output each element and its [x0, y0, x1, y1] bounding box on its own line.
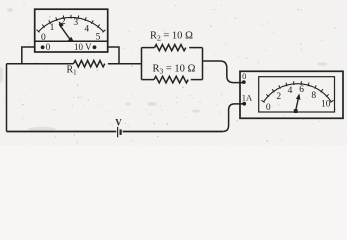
- voltmeter needle pivot: [68, 37, 73, 42]
- svg-text:1A: 1A: [242, 93, 253, 103]
- svg-text:0: 0: [46, 42, 51, 52]
- ammeter inner box: [259, 77, 335, 112]
- wire: bottom wire to ammeter bottom terminal: [223, 104, 244, 132]
- wire: top main wire right of R1: [108, 63, 142, 65]
- parallel box left edge: [141, 48, 143, 80]
- wire: bottom wire left of battery: [7, 131, 117, 133]
- wire: bottom wire right of battery: [123, 131, 223, 133]
- wire: parallel box to ammeter top terminal: [203, 61, 244, 83]
- voltmeter terminal right: [93, 45, 97, 49]
- ammeter scale numbers: [266, 85, 331, 113]
- ammeter needle: [296, 96, 299, 111]
- svg-text:8: 8: [311, 91, 316, 101]
- resistor R1: [74, 61, 105, 67]
- voltmeter needle arrowhead: [59, 21, 64, 27]
- wire: bottom branch right: [191, 79, 203, 81]
- wire: top branch right: [189, 47, 202, 49]
- wire: left outer wire: [6, 64, 8, 132]
- svg-text:2: 2: [61, 17, 66, 27]
- ammeter terminal 1A dot: [242, 102, 246, 106]
- svg-text:V: V: [115, 118, 122, 128]
- scan speckles: [4, 4, 336, 143]
- svg-text:1: 1: [50, 23, 55, 33]
- ammeter terminal 0 dot: [242, 80, 246, 84]
- wire: voltmeter right lead: [108, 47, 119, 64]
- resistor R2: [155, 45, 186, 51]
- svg-text:10 V: 10 V: [74, 42, 92, 52]
- wire: top branch left: [142, 47, 155, 49]
- wire: top main wire left of R1: [7, 63, 74, 65]
- ammeter scale arc: [264, 84, 332, 102]
- battery short plate: [119, 129, 121, 135]
- wire: bottom branch left: [142, 79, 155, 81]
- ammeter needle arrowhead: [296, 94, 301, 100]
- ammeter A1 outer box: [240, 71, 343, 118]
- voltmeter terminal left: [41, 45, 45, 49]
- svg-text:10: 10: [321, 100, 331, 110]
- svg-text:2: 2: [276, 92, 281, 102]
- ammeter needle pivot: [294, 109, 298, 113]
- voltmeter scale ticks: [37, 15, 106, 33]
- voltmeter needle: [59, 24, 70, 40]
- paper background: [0, 0, 347, 145]
- resistor R3: [154, 76, 188, 83]
- svg-text:0: 0: [266, 103, 271, 113]
- voltmeter V1 box: [35, 9, 108, 52]
- scan smudges: [0, 8, 327, 131]
- svg-text:3: 3: [73, 18, 78, 28]
- ammeter scale ticks: [261, 81, 333, 102]
- voltmeter divider: [35, 40, 108, 42]
- svg-text:5: 5: [96, 32, 101, 42]
- wire: voltmeter left lead: [22, 47, 35, 64]
- svg-text:0: 0: [242, 71, 246, 81]
- parallel box right edge: [202, 48, 204, 80]
- svg-text:R3 = 10 Ω: R3 = 10 Ω: [153, 64, 196, 76]
- svg-text:4: 4: [84, 25, 89, 35]
- battery long plate: [117, 127, 119, 137]
- voltmeter scale numbers: [41, 17, 101, 43]
- voltmeter scale arc: [39, 17, 104, 31]
- svg-text:6: 6: [299, 85, 304, 95]
- svg-text:R2 = 10 Ω: R2 = 10 Ω: [150, 31, 193, 43]
- svg-text:4: 4: [288, 86, 293, 96]
